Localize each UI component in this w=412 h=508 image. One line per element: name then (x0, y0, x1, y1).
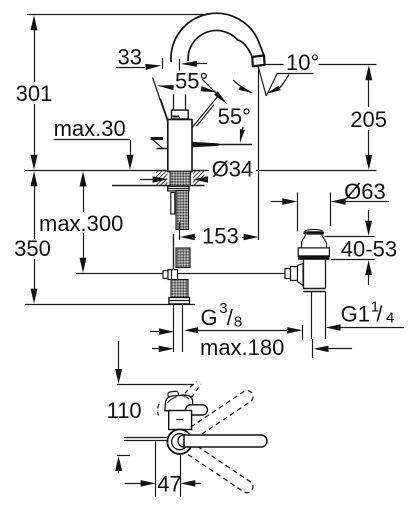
threaded shank (170, 171, 191, 186)
dimension max.180 (152, 335, 352, 360)
dimension 47 (125, 442, 201, 498)
plan view head and boss (165, 391, 208, 430)
svg-text:205: 205 (350, 107, 387, 132)
hose end nut G3/8 (169, 298, 190, 304)
label G 3/8 (150, 300, 303, 340)
svg-text:33: 33 (118, 45, 142, 70)
lever stem vertical (174, 94, 186, 110)
svg-text:40-53: 40-53 (341, 237, 397, 262)
supply hose segment 3 (171, 280, 188, 298)
angle 55 deg lower (202, 79, 251, 143)
svg-text:10°: 10° (286, 50, 319, 75)
pop-up knob hook (151, 139, 168, 149)
svg-text:350: 350 (14, 236, 51, 261)
svg-text:153: 153 (202, 224, 239, 249)
svg-text:8: 8 (234, 313, 242, 330)
svg-text:max.30: max.30 (54, 116, 126, 141)
dimension 40-53 (325, 210, 398, 285)
supply hose segment 1 (176, 191, 189, 230)
pop-up rod horizontal (76, 273, 285, 275)
dimension 33 (116, 45, 207, 71)
pop-up rod vertical (173, 234, 175, 272)
svg-text:55°: 55° (218, 104, 251, 129)
svg-text:G1: G1 (341, 302, 370, 327)
svg-text:Ø34: Ø34 (212, 157, 254, 182)
lever handle side view (193, 142, 253, 147)
angle 10 deg (233, 50, 319, 240)
lever tilted right (192, 95, 219, 128)
plan view dashed spout (158, 382, 201, 416)
spout nozzle (252, 55, 264, 66)
extension line from spout top (27, 14, 204, 16)
dashed lever upper (188, 391, 253, 439)
rod coupling on drain (285, 264, 303, 286)
mounting stud (171, 193, 175, 215)
faucet body (168, 120, 192, 172)
label G1 1/4 (326, 299, 405, 331)
supply hose segment 2 (176, 248, 190, 268)
svg-text:max.300: max.300 (39, 211, 123, 236)
dimension 205 (350, 65, 387, 170)
max.30 leader (54, 116, 134, 170)
svg-text:47: 47 (157, 472, 181, 497)
outlet extension line (265, 64, 284, 66)
hose tails extension lines (174, 304, 183, 352)
drain pop-up waste (298, 229, 329, 288)
drain locknut (303, 289, 326, 292)
svg-text:110: 110 (107, 398, 142, 423)
dimension 301 (16, 15, 53, 170)
dimension diameter 34 (140, 157, 256, 183)
svg-text:Ø63: Ø63 (344, 179, 386, 204)
svg-text:max.180: max.180 (200, 335, 284, 360)
dimension 350 (14, 171, 51, 303)
dimension 153 (180, 222, 259, 249)
spout tube arc (171, 13, 264, 62)
mounting nut (168, 186, 189, 191)
svg-text:4: 4 (386, 310, 394, 327)
cartridge cap (172, 110, 189, 119)
dashed lever lower (188, 445, 253, 493)
drain tailpipe (312, 292, 326, 339)
dimension 110 (107, 341, 194, 473)
svg-text:/: / (227, 305, 234, 330)
svg-text:G: G (201, 305, 218, 330)
rod clamp joint (163, 270, 178, 280)
svg-text:301: 301 (16, 81, 53, 106)
plan solid lever (184, 435, 267, 447)
plan body circles (167, 429, 192, 454)
plan rod (124, 438, 168, 441)
dimension max.300 (39, 172, 123, 273)
countertop section with hatch (25, 170, 209, 185)
svg-text:/: / (376, 302, 383, 327)
lever tilted left (153, 78, 168, 122)
angle 55 deg upper (157, 69, 218, 94)
countertop extension line right (205, 170, 377, 172)
dimension diameter 63 (271, 179, 390, 232)
plan lever ball arc (178, 435, 184, 447)
350 bottom reference line (25, 304, 195, 306)
